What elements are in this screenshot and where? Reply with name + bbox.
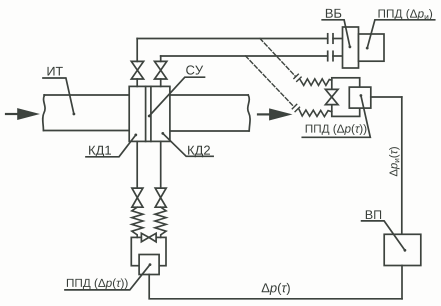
label ВБ xyxy=(322,20,351,49)
wire upper impulse line xyxy=(137,38,328,40)
label text ППД (Δp(τ)) bottom (w=62.3) xyxy=(67,278,128,289)
wire right vertical bus xyxy=(401,97,403,234)
label text КД1 (w=23.6) xyxy=(89,146,111,158)
pipe ИТ right section xyxy=(170,95,250,131)
equalizing valve (right, on manifold left edge) xyxy=(325,89,338,104)
pipe ИТ left section xyxy=(43,95,129,131)
valve V1 (top-left) xyxy=(131,39,143,87)
manifold (bottom assembly) xyxy=(131,237,166,265)
wire ВП bottom stub xyxy=(401,266,403,299)
label text Δp_i(τ) rotated (w=30.2) xyxy=(389,147,400,176)
label text ИТ (w=16.6) xyxy=(48,67,63,76)
label СУ leader xyxy=(148,77,205,117)
manifold (right assembly) xyxy=(332,78,360,117)
valve V2 (top-right) xyxy=(155,56,167,86)
secondary device ВП xyxy=(384,234,421,265)
label ВП leader xyxy=(362,221,407,252)
label text ВБ (w=17.2) xyxy=(326,9,341,18)
flow arrow (outlet) xyxy=(258,109,291,120)
label КД2 leader xyxy=(161,132,213,156)
chamber block (annular chambers) xyxy=(129,86,170,141)
wire bottom bus Δp(τ) xyxy=(149,275,402,299)
transducer ППД (Δp(τ)) bottom box xyxy=(139,255,159,275)
label ППД (Δp(τ)) bottom leader xyxy=(65,263,151,290)
label text СУ (w=17.6) xyxy=(186,65,203,74)
break ticks lower xyxy=(292,104,299,111)
dashed line lower xyxy=(246,56,294,106)
zigzag tube upper-right xyxy=(300,79,332,86)
connector ticks upper xyxy=(328,34,343,43)
equalizing valve (bottom, on manifold top edge) xyxy=(141,233,156,242)
zigzag tube bottom-left xyxy=(132,207,143,237)
flow arrow (inlet) xyxy=(6,109,38,120)
valve V3 (bottom-left) xyxy=(132,141,143,207)
wire transducer output to vertical bus xyxy=(371,96,402,98)
label text КД2 (w=23.6) xyxy=(188,146,210,158)
dashed line upper xyxy=(260,39,295,77)
break ticks upper xyxy=(294,74,301,81)
transducer ППД (Δp_и) box xyxy=(359,34,385,61)
label text ППД (Δp(τ)) right (w=62.3) xyxy=(306,124,367,135)
label ППД (Δp_и) leader xyxy=(366,20,435,50)
connector ticks lower xyxy=(328,51,343,60)
transducer ППД (Δp(τ)) right box xyxy=(349,87,371,108)
label text Δp(τ) (w=29.4) xyxy=(262,283,290,295)
orifice plate СУ xyxy=(146,86,151,141)
label text ВП (w=17.3) xyxy=(366,210,381,219)
zigzag tube bottom-right xyxy=(155,207,166,237)
label КД1 leader xyxy=(86,134,137,157)
zigzag tube lower-right xyxy=(299,109,332,117)
valve V4 (bottom-right) xyxy=(155,141,166,207)
label text ППД (Δp_i) (w=55.3) xyxy=(379,9,433,20)
wire lower impulse line xyxy=(161,55,328,57)
valve block ВБ xyxy=(343,27,359,68)
label ППД (Δp(τ)) right leader xyxy=(302,94,370,137)
label ИТ leader xyxy=(43,78,75,115)
